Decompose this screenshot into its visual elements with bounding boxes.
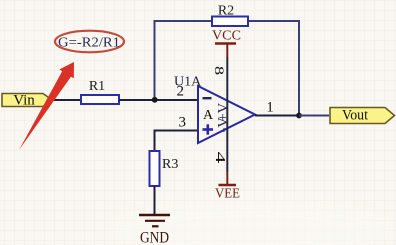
wire: R3 to ground xyxy=(154,186,156,215)
svg-text:1: 1 xyxy=(266,100,274,116)
resistor R2 xyxy=(212,4,248,27)
wire: R1 to op-amp pin 2 xyxy=(119,99,198,101)
wire: Vin to R1 xyxy=(52,99,81,101)
pin number 1 xyxy=(266,100,274,116)
wire: junction to Vout xyxy=(299,115,329,117)
svg-text:G=-R2/R1: G=-R2/R1 xyxy=(58,36,120,51)
pin number 4 (rotated) xyxy=(212,152,227,164)
svg-text:GND: GND xyxy=(140,230,169,245)
svg-text:VEE: VEE xyxy=(215,187,240,202)
pin number 3 xyxy=(179,115,187,131)
svg-text:VCC: VCC xyxy=(212,29,241,44)
wire: pin 3 to R3 xyxy=(155,131,199,152)
svg-text:Vout: Vout xyxy=(342,108,369,124)
pin number 8 (rotated) xyxy=(212,66,226,75)
wire: output to junction xyxy=(255,115,299,117)
svg-text:R3: R3 xyxy=(162,157,178,172)
pin number 2 xyxy=(177,84,185,100)
svg-text:A: A xyxy=(203,108,214,123)
svg-text:8: 8 xyxy=(212,66,226,75)
power VEE xyxy=(215,185,240,202)
wire: power pin line through op-amp xyxy=(226,44,228,185)
svg-text:-V: -V xyxy=(216,117,232,133)
ground GND xyxy=(139,215,170,245)
op-amp U1A xyxy=(174,75,255,144)
svg-text:Vin: Vin xyxy=(13,93,35,109)
power VCC xyxy=(212,29,241,44)
resistor R1 xyxy=(81,79,119,104)
net flag Vin xyxy=(2,93,52,109)
svg-text:R2: R2 xyxy=(218,4,234,19)
annotation arrow xyxy=(19,62,74,150)
annotation ellipse G=-R2/R1 xyxy=(55,31,124,53)
net flag Vout xyxy=(330,108,395,124)
svg-text:R1: R1 xyxy=(89,79,105,94)
wire: feedback top horizontal and left/right verticals xyxy=(155,21,300,115)
resistor R3 xyxy=(150,151,179,186)
svg-text:3: 3 xyxy=(179,115,187,131)
node: output junction xyxy=(296,113,302,119)
svg-text:4: 4 xyxy=(212,152,227,164)
node: junction at inverting input xyxy=(152,97,158,103)
svg-text:2: 2 xyxy=(177,84,185,100)
